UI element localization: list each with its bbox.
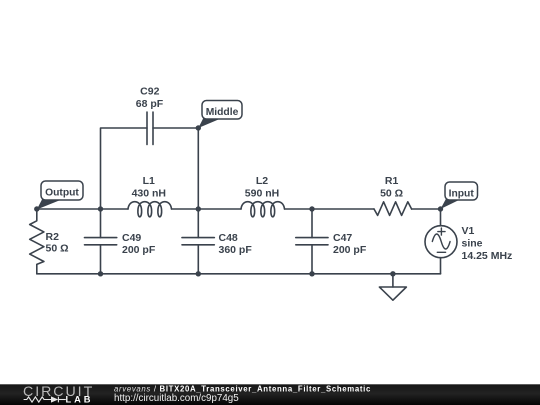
svg-text:360 pF: 360 pF xyxy=(219,244,253,256)
svg-text:430 nH: 430 nH xyxy=(132,187,166,199)
svg-text:L2: L2 xyxy=(256,175,268,187)
svg-text:C92: C92 xyxy=(140,86,159,98)
svg-text:590 nH: 590 nH xyxy=(245,187,279,199)
svg-text:14.25 MHz: 14.25 MHz xyxy=(462,250,513,262)
svg-text:200 pF: 200 pF xyxy=(333,244,367,256)
svg-text:68 pF: 68 pF xyxy=(136,98,164,110)
svg-text:V1: V1 xyxy=(462,225,475,237)
svg-text:R2: R2 xyxy=(46,231,60,243)
svg-text:C49: C49 xyxy=(122,232,141,244)
svg-text:C47: C47 xyxy=(333,232,352,244)
svg-text:Middle: Middle xyxy=(206,107,239,118)
svg-text:Input: Input xyxy=(449,188,475,199)
svg-text:50 Ω: 50 Ω xyxy=(380,187,403,199)
svg-text:R1: R1 xyxy=(385,175,399,187)
svg-text:sine: sine xyxy=(462,237,483,249)
svg-text:L1: L1 xyxy=(143,175,155,187)
svg-text:C48: C48 xyxy=(219,232,238,244)
svg-text:http://circuitlab.com/c9p74g5: http://circuitlab.com/c9p74g5 xyxy=(114,393,239,404)
svg-text:LAB: LAB xyxy=(66,395,94,405)
svg-text:200 pF: 200 pF xyxy=(122,244,156,256)
svg-text:50 Ω: 50 Ω xyxy=(46,242,69,254)
svg-text:Output: Output xyxy=(45,188,79,199)
